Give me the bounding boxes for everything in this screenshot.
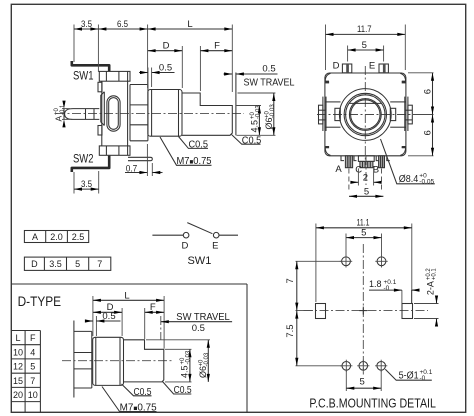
svg-text:7: 7 <box>285 278 296 283</box>
svg-text:D-TYPE: D-TYPE <box>18 293 62 309</box>
svg-text:0.5: 0.5 <box>159 63 172 74</box>
svg-text:0.5: 0.5 <box>192 323 205 334</box>
svg-text:5: 5 <box>30 362 35 372</box>
svg-text:F: F <box>30 333 36 343</box>
svg-text:-0.03: -0.03 <box>204 352 210 366</box>
svg-text:2-A: 2-A <box>426 281 436 295</box>
svg-text:D: D <box>163 41 170 52</box>
svg-text:5: 5 <box>360 377 365 388</box>
svg-text:2: 2 <box>363 172 368 183</box>
svg-text:SW1: SW1 <box>187 255 211 267</box>
svg-text:D: D <box>181 240 188 251</box>
svg-text:0.5: 0.5 <box>262 64 275 75</box>
svg-text:-0.03: -0.03 <box>270 104 276 118</box>
svg-text:6: 6 <box>423 89 434 94</box>
svg-text:-0.05: -0.05 <box>419 179 434 186</box>
svg-text:4.5: 4.5 <box>250 120 260 133</box>
svg-text:P.C.B.MOUNTING DETAIL: P.C.B.MOUNTING DETAIL <box>309 396 436 411</box>
svg-text:12: 12 <box>13 362 23 372</box>
svg-text:E: E <box>212 240 218 251</box>
svg-text:0.5: 0.5 <box>102 311 115 322</box>
svg-text:6.5: 6.5 <box>117 19 128 30</box>
svg-text:6: 6 <box>423 130 434 135</box>
svg-text:SW TRAVEL: SW TRAVEL <box>176 311 230 323</box>
svg-text:7.5: 7.5 <box>285 324 296 337</box>
svg-text:+0.1: +0.1 <box>432 268 438 281</box>
svg-text:L: L <box>187 19 192 30</box>
svg-text:F: F <box>150 302 156 313</box>
svg-text:-0.03: -0.03 <box>256 105 262 119</box>
svg-text:E: E <box>369 61 375 72</box>
svg-text:7: 7 <box>30 376 35 386</box>
svg-text:SW2: SW2 <box>73 154 94 166</box>
svg-text:0.7: 0.7 <box>126 163 138 174</box>
svg-text:10: 10 <box>28 390 38 400</box>
svg-text:3.5: 3.5 <box>49 259 62 269</box>
svg-text:11.7: 11.7 <box>357 24 372 35</box>
svg-text:4.5: 4.5 <box>180 365 190 378</box>
svg-text:A: A <box>335 164 342 175</box>
svg-text:Ø8.4: Ø8.4 <box>399 174 419 185</box>
svg-text:SW TRAVEL: SW TRAVEL <box>244 77 295 89</box>
svg-text:15: 15 <box>13 376 23 386</box>
svg-text:4: 4 <box>30 347 35 357</box>
svg-text:5: 5 <box>361 228 366 239</box>
svg-text:5: 5 <box>364 186 369 197</box>
svg-text:-0: -0 <box>384 285 390 292</box>
svg-text:F: F <box>214 41 220 52</box>
svg-text:L: L <box>124 290 129 301</box>
svg-text:5: 5 <box>362 40 367 51</box>
svg-text:L: L <box>15 333 20 343</box>
svg-text:D: D <box>333 61 340 72</box>
svg-text:10: 10 <box>13 347 23 357</box>
svg-text:Ø6: Ø6 <box>264 117 274 129</box>
svg-text:-0.03: -0.03 <box>186 350 192 364</box>
svg-text:-0.1: -0.1 <box>60 104 66 115</box>
svg-text:Ø6: Ø6 <box>198 366 208 378</box>
svg-text:1.8: 1.8 <box>369 279 382 289</box>
svg-text:5: 5 <box>75 259 80 269</box>
svg-text:3.5: 3.5 <box>81 19 92 30</box>
svg-text:A: A <box>54 116 64 122</box>
svg-text:-0: -0 <box>420 375 426 382</box>
svg-text:7: 7 <box>97 259 102 269</box>
svg-text:5-Ø1: 5-Ø1 <box>399 370 419 381</box>
svg-text:SW1: SW1 <box>73 71 94 83</box>
svg-text:D: D <box>31 259 38 269</box>
svg-text:2.5: 2.5 <box>72 232 85 242</box>
svg-text:2.0: 2.0 <box>50 232 63 242</box>
svg-text:A: A <box>32 232 38 242</box>
svg-text:3.5: 3.5 <box>81 179 92 190</box>
svg-text:20: 20 <box>13 390 23 400</box>
